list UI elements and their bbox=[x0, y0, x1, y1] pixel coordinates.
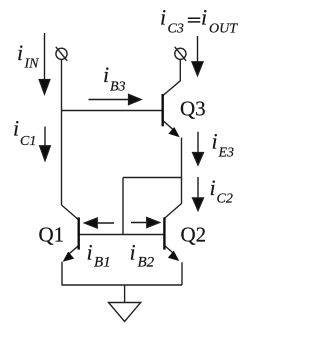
svg-text:C2: C2 bbox=[217, 192, 233, 207]
svg-text:i: i bbox=[160, 5, 166, 30]
svg-text:i: i bbox=[212, 129, 218, 154]
svg-text:Q3: Q3 bbox=[180, 97, 206, 121]
svg-text:i: i bbox=[17, 40, 23, 65]
svg-text:i: i bbox=[103, 62, 109, 87]
svg-text:OUT: OUT bbox=[209, 22, 238, 37]
svg-text:B2: B2 bbox=[138, 255, 155, 271]
svg-text:i: i bbox=[87, 240, 93, 265]
svg-text:i: i bbox=[13, 116, 19, 141]
svg-text:E3: E3 bbox=[218, 146, 235, 161]
svg-text:B3: B3 bbox=[110, 80, 126, 95]
svg-text:C1: C1 bbox=[20, 134, 36, 149]
svg-text:Q1: Q1 bbox=[39, 223, 65, 247]
svg-text:i: i bbox=[130, 240, 136, 265]
svg-text:C3: C3 bbox=[168, 22, 184, 37]
svg-text:i: i bbox=[210, 175, 216, 200]
svg-text:i: i bbox=[201, 5, 207, 30]
svg-text:Q2: Q2 bbox=[181, 223, 207, 247]
svg-text:B1: B1 bbox=[94, 255, 111, 271]
svg-text:IN: IN bbox=[24, 57, 40, 72]
